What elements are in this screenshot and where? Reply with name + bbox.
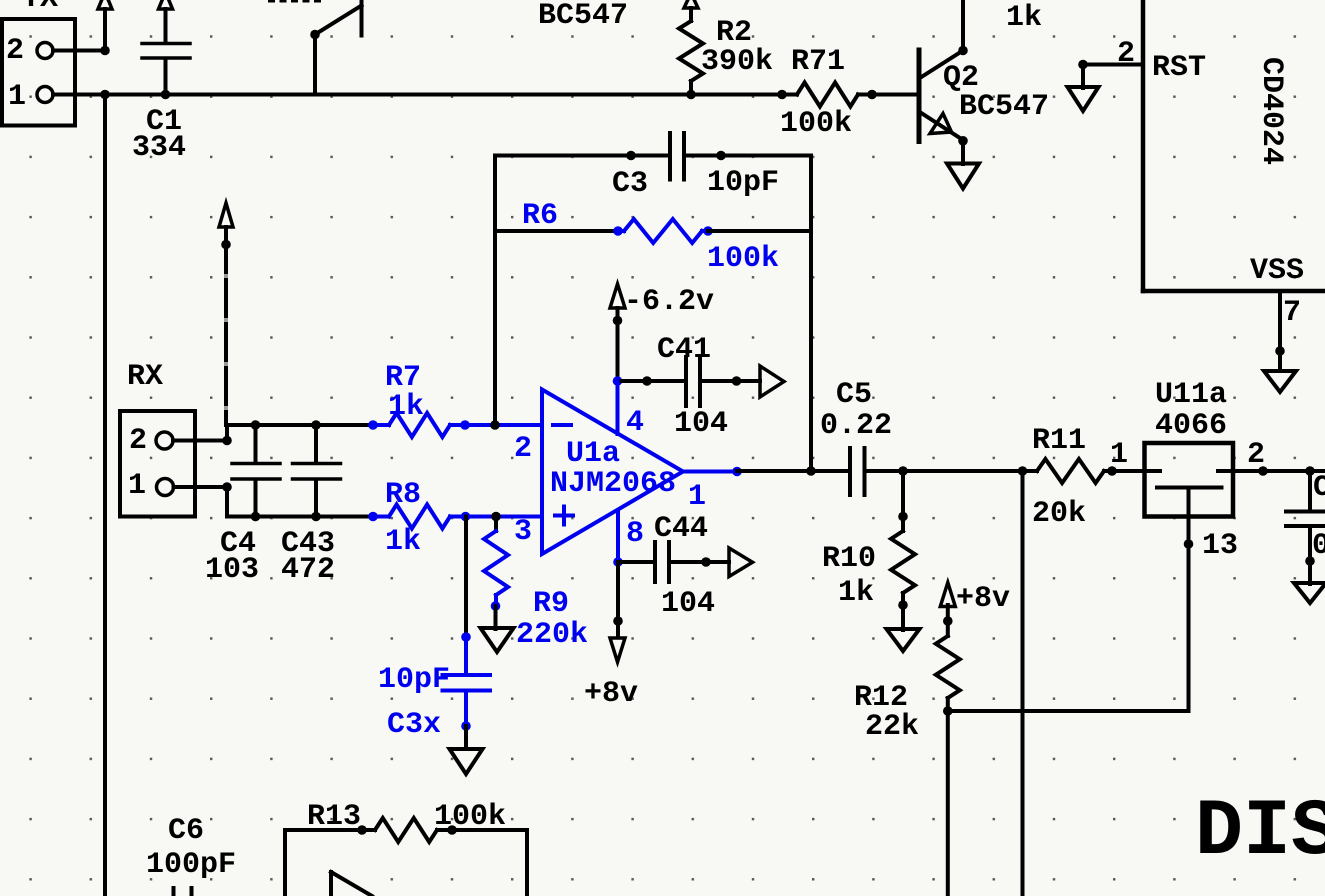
connector RX — [120, 360, 195, 517]
dashed guard line with arrow — [219, 203, 233, 425]
wire left vertical rail — [103, 95, 107, 896]
wire right cap to ground — [1308, 561, 1312, 584]
label BC547 top — [538, 0, 628, 33]
svg-text:100k: 100k — [707, 242, 779, 276]
wire R13 box — [285, 825, 527, 896]
svg-text:1: 1 — [128, 469, 146, 503]
ground under R10 — [887, 629, 920, 651]
wire R9 to ground — [494, 606, 498, 629]
resistor R7 1k — [368, 361, 542, 437]
resistor R11 20k — [1032, 424, 1144, 531]
capacitor C3x 10pF — [378, 637, 490, 742]
wire pin8 to +8v — [613, 562, 623, 636]
wire C5 to R11 — [867, 466, 1038, 476]
capacitor right edge — [1286, 471, 1325, 566]
svg-text:2: 2 — [6, 34, 24, 68]
svg-text:CD4024: CD4024 — [1254, 57, 1288, 165]
connector TX — [2, 0, 75, 126]
svg-text:DIS: DIS — [1195, 787, 1325, 878]
capacitor C44 104 — [654, 512, 715, 621]
svg-text:R8: R8 — [385, 478, 421, 512]
off-page arrow up at x105 — [98, 0, 112, 51]
wire C41 right — [702, 376, 760, 386]
capacitor C41 104 — [657, 333, 728, 441]
IC CD4024 outline — [1143, 0, 1325, 291]
svg-text:0: 0 — [1312, 529, 1325, 563]
wire feedback top (C3 net) — [495, 151, 811, 161]
resistor R2 390k — [679, 0, 773, 95]
ground VSS pin7 — [1264, 371, 1296, 392]
transistor Q2 BC547 — [919, 46, 1049, 146]
svg-text:R11: R11 — [1032, 424, 1086, 458]
resistor R13 100k — [307, 800, 506, 842]
capacitor C3 10pF — [612, 133, 779, 201]
svg-text:7: 7 — [1283, 296, 1301, 330]
svg-text:C44: C44 — [654, 512, 708, 546]
svg-text:BC547: BC547 — [959, 90, 1049, 124]
ground under R9 — [481, 628, 514, 652]
wire feedback left vertical — [493, 156, 497, 426]
svg-text:1k: 1k — [385, 525, 421, 559]
pin 4 stub — [616, 381, 620, 434]
svg-text:20k: 20k — [1032, 497, 1086, 531]
resistor R12 22k — [854, 605, 960, 744]
pin 8 stub — [613, 511, 623, 567]
wire RX pin1 — [174, 482, 232, 516]
svg-text:103: 103 — [205, 553, 259, 587]
svg-text:C6: C6 — [168, 814, 204, 848]
svg-text:C: C — [1313, 471, 1325, 505]
svg-text:3: 3 — [514, 515, 532, 549]
capacitor C5 0.22 — [820, 378, 892, 495]
svg-text:220k: 220k — [516, 618, 588, 652]
supply -6.2v arrow — [610, 284, 714, 381]
wire C3x to ground — [464, 726, 468, 749]
ground at RST — [1068, 87, 1099, 111]
wire Q2 collector up — [961, 0, 965, 51]
svg-text:4: 4 — [626, 406, 644, 440]
svg-text:C3: C3 — [612, 167, 648, 201]
capacitor C4 103 — [205, 425, 280, 587]
partial text bottoms top edge — [268, 0, 321, 3]
ground under Q2 — [947, 164, 979, 189]
svg-text:R71: R71 — [791, 45, 845, 79]
port arrow C41 — [760, 366, 784, 397]
ground right edge — [1294, 583, 1325, 603]
wire RST pin 2 — [1078, 37, 1143, 71]
junction minus input — [490, 420, 500, 430]
svg-text:10pF: 10pF — [707, 166, 779, 200]
wire output to C5 — [737, 466, 848, 476]
supply +8v arrow down — [584, 638, 638, 711]
svg-text:2: 2 — [514, 432, 532, 466]
wire RX pin2 — [173, 425, 232, 445]
svg-text:R10: R10 — [822, 542, 876, 576]
wire C41 left — [613, 376, 684, 386]
wire R6 row left — [495, 229, 618, 233]
svg-text:100k: 100k — [780, 107, 852, 141]
svg-text:C3x: C3x — [387, 708, 441, 742]
svg-text:104: 104 — [661, 587, 715, 621]
wire R8 to C3x — [461, 517, 471, 642]
wire feedback right vertical — [809, 156, 813, 472]
svg-text:U1a: U1a — [566, 437, 620, 471]
svg-text:1k: 1k — [388, 390, 424, 424]
svg-text:4066: 4066 — [1155, 409, 1227, 443]
resistor R71 100k — [780, 45, 872, 141]
svg-text:RST: RST — [1152, 51, 1206, 85]
resistor R10 1k — [822, 471, 915, 610]
svg-text:U11a: U11a — [1155, 378, 1227, 412]
svg-text:-6.2v: -6.2v — [624, 285, 714, 319]
label 1k top right — [1006, 1, 1042, 35]
port arrow C44 — [729, 548, 753, 577]
svg-text:NJM2068: NJM2068 — [550, 467, 676, 501]
svg-text:104: 104 — [674, 407, 728, 441]
IC U11a 4066 — [1144, 378, 1265, 563]
svg-text:472: 472 — [281, 553, 335, 587]
wire R6 row right — [708, 229, 811, 233]
op-amp partial bottom — [331, 872, 372, 896]
svg-text:VSS: VSS — [1250, 254, 1304, 288]
svg-text:1: 1 — [1110, 438, 1128, 472]
svg-text:R13: R13 — [307, 800, 361, 834]
capacitor C1 334 — [132, 0, 190, 165]
svg-text:1k: 1k — [838, 576, 874, 610]
supply +8v arrow R12 — [940, 582, 1010, 616]
svg-text:+8v: +8v — [956, 582, 1010, 616]
svg-text:R6: R6 — [522, 199, 558, 233]
wire C44 right — [671, 557, 729, 567]
svg-text:2: 2 — [129, 424, 147, 458]
svg-text:1: 1 — [688, 480, 706, 514]
svg-text:8: 8 — [626, 517, 644, 551]
svg-text:BC547: BC547 — [538, 0, 628, 33]
ground under C3x — [450, 749, 483, 774]
wire down from R11 junction — [1021, 471, 1025, 896]
pin 7 VSS wire — [1275, 291, 1301, 371]
svg-text:10pF: 10pF — [378, 663, 450, 697]
wire bus net (y=94.5) — [53, 90, 917, 100]
wire R10 to ground — [901, 605, 905, 630]
junction R9 top — [491, 512, 501, 522]
svg-text:R9: R9 — [533, 587, 569, 621]
wire C44 left — [618, 560, 653, 564]
capacitor C43 472 — [281, 425, 341, 587]
svg-text:+8v: +8v — [584, 677, 638, 711]
wire R12 to pin13 — [948, 709, 1189, 713]
label DIS bottom right — [1195, 787, 1325, 878]
svg-text:22k: 22k — [865, 710, 919, 744]
resistor R9 220k — [484, 517, 588, 653]
svg-text:1k: 1k — [1006, 1, 1042, 35]
svg-text:RX: RX — [127, 360, 163, 394]
wire R12 down — [946, 711, 950, 896]
svg-text:2: 2 — [1117, 37, 1135, 71]
capacitor C6 100pF — [146, 814, 236, 896]
wire to ground RST — [1081, 65, 1085, 89]
svg-text:C41: C41 — [657, 333, 711, 367]
wire U11a out right — [1235, 466, 1325, 476]
wire pin 13 — [1184, 489, 1194, 712]
svg-text:1: 1 — [8, 80, 26, 114]
wire Q2 emitter down — [961, 141, 965, 164]
svg-text:13: 13 — [1202, 529, 1238, 563]
op-amp U1a NJM2068 — [514, 390, 706, 555]
svg-text:334: 334 — [132, 131, 186, 165]
resistor R8 1k — [368, 478, 542, 559]
wire TX pin2 to node — [53, 46, 110, 56]
resistor R6 100k — [522, 199, 779, 276]
svg-text:390k: 390k — [701, 45, 773, 79]
switch S1 — [310, 0, 361, 95]
svg-text:100k: 100k — [434, 800, 506, 834]
svg-text:C5: C5 — [836, 378, 872, 412]
svg-text:TX: TX — [22, 0, 58, 16]
wire inverting input row — [226, 420, 373, 430]
wire op-amp output blue — [683, 467, 742, 477]
svg-text:100pF: 100pF — [146, 848, 236, 882]
svg-text:0.22: 0.22 — [820, 409, 892, 443]
wire noninverting input row — [227, 512, 373, 522]
